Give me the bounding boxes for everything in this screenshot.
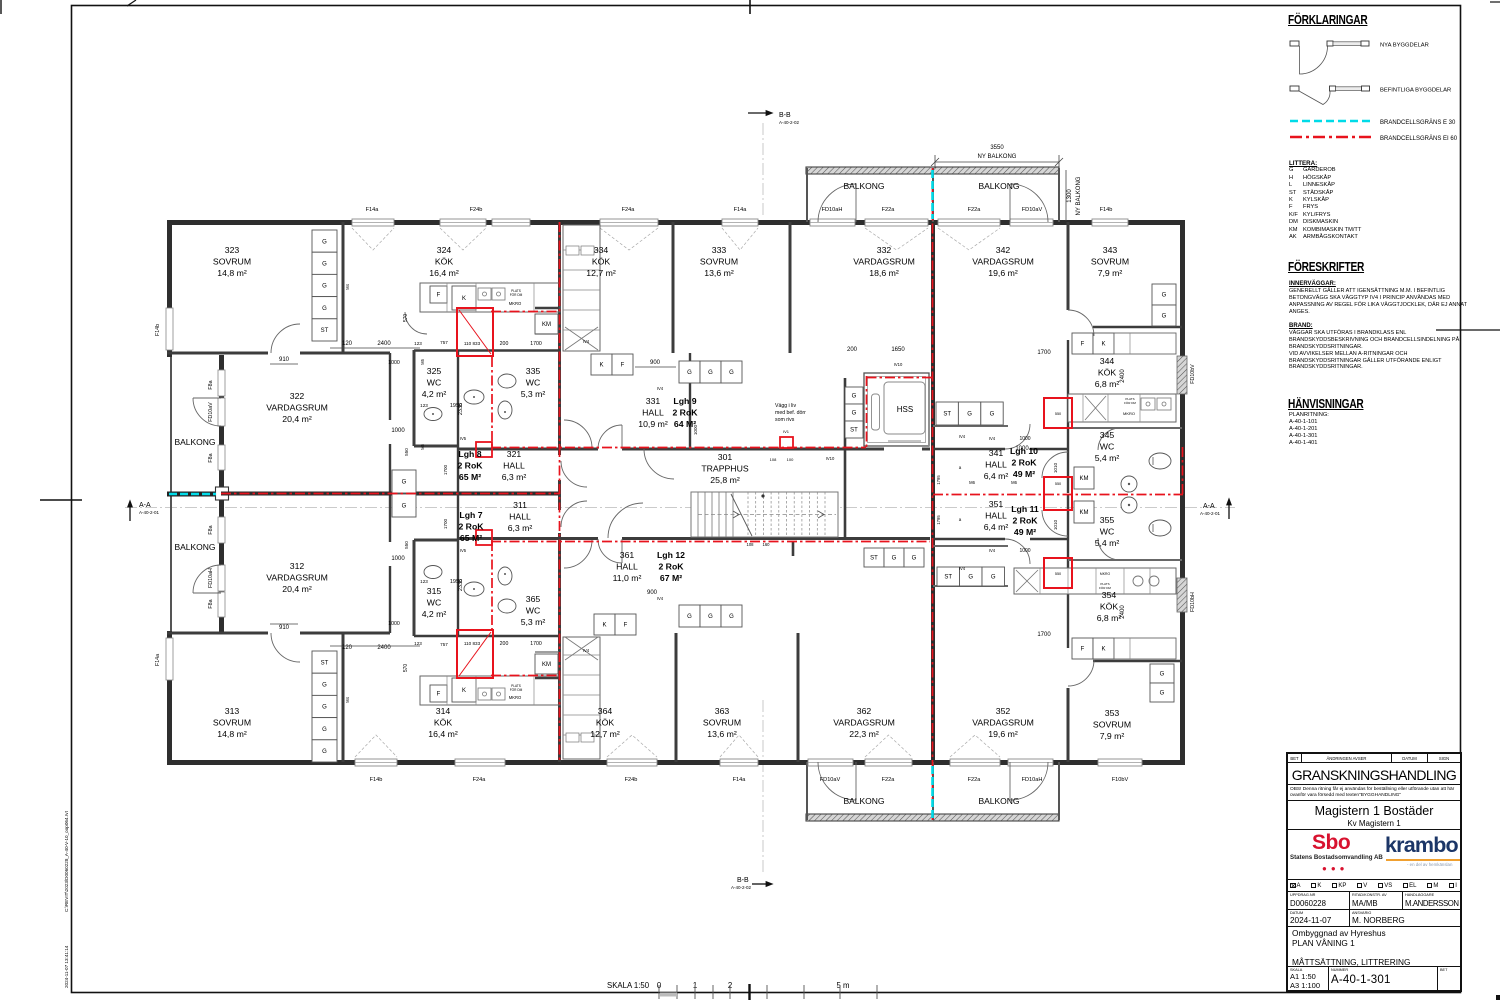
svg-text:G: G [322, 306, 327, 312]
svg-text:Vägg i liv: Vägg i liv [775, 403, 796, 409]
svg-text:VARDAGSRUM: VARDAGSRUM [266, 573, 328, 583]
door 352 side [1042, 510, 1068, 536]
svg-text:2400: 2400 [1120, 369, 1126, 383]
closets 353 [1150, 664, 1174, 683]
window swing dashed [600, 228, 658, 250]
wall 341 hall north [933, 448, 1005, 451]
counter 353 [1114, 638, 1176, 659]
wall 344 area [1067, 340, 1069, 493]
door 343 [1068, 310, 1094, 336]
window top wall [600, 219, 658, 226]
logo row [1288, 830, 1460, 880]
svg-text:354: 354 [1102, 590, 1117, 600]
svg-text:110 833: 110 833 [464, 641, 481, 646]
shaft red small bottom [476, 530, 492, 545]
svg-text:F14a: F14a [734, 207, 748, 213]
svg-text:Lgh 9: Lgh 9 [673, 396, 696, 406]
svg-text:1700: 1700 [1037, 632, 1051, 638]
window swing dashed [720, 735, 758, 757]
svg-text:313: 313 [225, 706, 240, 716]
svg-text:NYA BYGGDELAR: NYA BYGGDELAR [1380, 43, 1429, 49]
wall 345 north [1068, 427, 1182, 429]
door 361 inner [564, 540, 592, 568]
svg-text:G: G [322, 727, 327, 733]
cabinet F K bottom right [1072, 638, 1093, 659]
svg-text:SOVRUM: SOVRUM [1091, 257, 1129, 267]
svg-text:M5: M5 [420, 443, 425, 449]
cabinet K F 334 [591, 354, 612, 375]
svg-text:VARDAGSRUM: VARDAGSRUM [853, 257, 915, 267]
svg-text:200: 200 [847, 347, 858, 353]
svg-text:ST: ST [870, 556, 878, 562]
svg-text:WC: WC [526, 378, 540, 388]
svg-text:BALKONG: BALKONG [843, 796, 884, 806]
svg-text:M5: M5 [420, 358, 425, 364]
window top wall [1010, 219, 1053, 226]
logo krambo [1385, 833, 1458, 858]
svg-text:F: F [437, 692, 441, 698]
svg-text:10,9 m²: 10,9 m² [638, 419, 668, 429]
svg-text:WC: WC [427, 598, 441, 608]
svg-text:1000: 1000 [388, 621, 400, 627]
svg-text:910: 910 [279, 357, 290, 363]
svg-text:6,3 m²: 6,3 m² [508, 523, 533, 533]
svg-text:KM: KM [542, 322, 551, 328]
svg-text:BALKONG: BALKONG [843, 181, 884, 191]
fire line EI60 vertical x559 mid [559, 447, 561, 541]
datum row [1288, 910, 1460, 927]
svg-text:1000: 1000 [391, 428, 405, 434]
svg-text:M6: M6 [969, 480, 975, 485]
svg-text:334: 334 [594, 245, 609, 255]
window top wall [865, 219, 928, 226]
window swing dashed [355, 735, 397, 757]
svg-text:F22a: F22a [968, 207, 982, 213]
window bottom wall [455, 759, 505, 766]
wall 333/332 [789, 222, 792, 353]
svg-text:100: 100 [787, 457, 794, 462]
right wall recess lower [1177, 578, 1187, 612]
svg-text:a: a [959, 465, 962, 470]
svg-text:M4: M4 [345, 283, 350, 289]
svg-text:550: 550 [404, 448, 409, 456]
closets stair side [845, 387, 863, 404]
svg-text:G: G [322, 284, 327, 290]
svg-text:333: 333 [712, 245, 727, 255]
svg-text:345: 345 [1100, 430, 1115, 440]
cabinet F K 314 [430, 685, 447, 702]
fire line EI60 main horizontal right wing [933, 494, 1183, 496]
svg-text:F24b: F24b [470, 207, 483, 213]
svg-text:757: 757 [440, 642, 448, 647]
svg-text:G: G [687, 370, 692, 376]
top balcony slab edge [806, 167, 1059, 174]
svg-text:F14b: F14b [370, 777, 383, 783]
svg-text:123: 123 [420, 579, 428, 584]
closets 333 [679, 361, 700, 383]
svg-text:6,4 m²: 6,4 m² [984, 471, 1009, 481]
wall hall321 left [457, 350, 459, 493]
legend brand text [1289, 323, 1467, 371]
window bottom wall [950, 759, 1000, 766]
section marker B-B top [748, 112, 766, 114]
svg-text:1300: 1300 [1067, 189, 1073, 203]
door 323 wardrobe [405, 312, 427, 334]
svg-text:49 M²: 49 M² [1014, 527, 1036, 537]
closets 313 [312, 651, 337, 673]
door balcony left upper [193, 398, 221, 426]
window bottom wall [355, 759, 397, 766]
svg-text:C:\REVIT\2023\D0060228_A-40-V-: C:\REVIT\2023\D0060228_A-40-V-10_oop064.… [64, 810, 69, 912]
wall kitchens/wc bottom [414, 635, 560, 638]
window swing dashed [440, 228, 486, 250]
door balcony top 1 [818, 184, 856, 222]
svg-text:1010: 1010 [1053, 519, 1058, 530]
left balcony outer wall [170, 357, 172, 631]
svg-text:2 RoK: 2 RoK [457, 461, 483, 471]
svg-text:SOVRUM: SOVRUM [700, 257, 738, 267]
washer KM centre top [535, 314, 558, 334]
svg-text:1000: 1000 [693, 424, 698, 435]
svg-text:ST: ST [321, 660, 329, 666]
svg-text:FÖR DM: FÖR DM [510, 688, 523, 692]
svg-text:F: F [1081, 647, 1085, 653]
svg-text:IV5: IV5 [460, 548, 467, 553]
svg-text:G: G [687, 614, 692, 620]
svg-text:SOVRUM: SOVRUM [213, 718, 251, 728]
svg-text:HALL: HALL [642, 408, 664, 418]
window bottom wall [865, 759, 912, 766]
svg-text:1700: 1700 [530, 641, 542, 647]
stair walk line arrows [733, 511, 739, 518]
svg-text:F22a: F22a [882, 207, 896, 213]
svg-text:Lgh 8: Lgh 8 [458, 449, 481, 459]
svg-text:G: G [852, 411, 857, 417]
svg-text:315: 315 [427, 586, 442, 596]
svg-text:G: G [1160, 691, 1165, 697]
window left facade [218, 517, 225, 543]
fire line EI60 vertical x559 top [559, 222, 561, 447]
wc 365 fixtures [498, 599, 516, 613]
svg-text:FD10bH: FD10bH [1190, 592, 1196, 612]
svg-text:7,9 m²: 7,9 m² [1100, 731, 1125, 741]
wall x390 hall [389, 353, 391, 420]
exterior wall right [1180, 220, 1185, 765]
svg-text:342: 342 [996, 245, 1011, 255]
svg-text:1000: 1000 [1019, 548, 1030, 554]
fire line E30 bottom balcony [931, 766, 934, 818]
shaft red small top [476, 442, 492, 457]
svg-text:BALKONG: BALKONG [174, 437, 215, 447]
svg-text:314: 314 [436, 706, 451, 716]
window swing dashed [938, 228, 1000, 250]
svg-text:HALL: HALL [509, 512, 531, 522]
fire line EI60 right wall [1182, 447, 1184, 494]
legend door symbols [1288, 30, 1468, 120]
svg-text:F24a: F24a [622, 207, 636, 213]
window left facade [218, 592, 225, 617]
svg-text:IV1: IV1 [783, 429, 790, 434]
cabinet F K 324 [430, 286, 447, 303]
wall 313/314 [342, 633, 345, 762]
bottom balcony left wall [806, 762, 808, 820]
svg-text:a: a [959, 517, 962, 522]
wc 345 fixtures [1149, 453, 1171, 469]
svg-text:1795: 1795 [936, 515, 941, 525]
svg-text:18,6 m²: 18,6 m² [869, 268, 899, 278]
svg-text:FD10aV: FD10aV [1022, 207, 1043, 213]
door 353 [1068, 660, 1094, 686]
svg-text:123: 123 [414, 641, 422, 646]
title block [1286, 752, 1462, 992]
stair flight [691, 492, 838, 537]
window swing dashed [607, 735, 657, 757]
svg-text:VARDAGSRUM: VARDAGSRUM [972, 257, 1034, 267]
left centre tick [40, 499, 82, 501]
legend fire lines [1288, 114, 1478, 148]
fire line E30 top balcony [931, 170, 934, 219]
svg-text:ST: ST [850, 428, 858, 434]
svg-text:KÖK: KÖK [592, 257, 611, 267]
svg-text:G: G [967, 412, 972, 418]
svg-text:A-40-2-02: A-40-2-02 [731, 885, 752, 890]
stair treads dashed upper [747, 492, 749, 537]
svg-text:325: 325 [427, 366, 442, 376]
svg-text:757: 757 [440, 340, 448, 345]
svg-text:361: 361 [620, 550, 635, 560]
svg-text:F14a: F14a [366, 207, 380, 213]
svg-text:108: 108 [747, 542, 755, 547]
legend littera list [1289, 160, 1469, 241]
svg-text:570: 570 [403, 314, 409, 323]
wc 315 fixtures [464, 582, 484, 596]
svg-text:323: 323 [225, 245, 240, 255]
svg-text:IV4: IV4 [657, 596, 664, 601]
svg-text:5 m: 5 m [837, 981, 850, 990]
svg-text:som rivs: som rivs [775, 417, 795, 423]
shaft HSS [864, 373, 929, 446]
svg-text:G: G [322, 749, 327, 755]
svg-text:F: F [621, 363, 625, 369]
svg-text:FD10aH: FD10aH [1022, 777, 1043, 783]
svg-text:1700: 1700 [443, 464, 448, 475]
door balcony bottom 1 [818, 762, 856, 800]
kitchen counter 314 [420, 676, 560, 705]
svg-text:351: 351 [989, 499, 1004, 509]
granskningshandling row [1288, 763, 1460, 785]
svg-text:67 M²: 67 M² [660, 573, 682, 583]
revision row [1288, 754, 1460, 763]
svg-text:110 833: 110 833 [464, 341, 481, 346]
svg-text:200: 200 [500, 341, 509, 347]
door balcony top 2 [1010, 184, 1048, 222]
door hall 341 [1005, 424, 1030, 449]
stairwell wall east [844, 378, 847, 538]
svg-text:G: G [729, 370, 734, 376]
svg-text:KÖK: KÖK [1100, 602, 1119, 612]
fire line EI60 corridor south [491, 541, 930, 543]
svg-text:1010: 1010 [1053, 462, 1058, 473]
wall 334/333 [672, 222, 675, 353]
svg-text:4,2 m²: 4,2 m² [422, 609, 447, 619]
wall 354 area [1067, 494, 1069, 648]
svg-text:BALKONG: BALKONG [978, 181, 1019, 191]
svg-text:341: 341 [989, 448, 1004, 458]
fire line EI60 vertical centre [932, 168, 934, 820]
svg-text:6,4 m²: 6,4 m² [984, 522, 1009, 532]
svg-text:364: 364 [598, 706, 613, 716]
svg-text:355: 355 [1100, 515, 1115, 525]
svg-text:900: 900 [650, 360, 661, 366]
svg-text:200: 200 [500, 641, 509, 647]
svg-text:25,8 m²: 25,8 m² [710, 475, 740, 485]
svg-text:G: G [991, 575, 996, 581]
svg-text:1000: 1000 [391, 556, 405, 562]
svg-text:2 RoK: 2 RoK [1011, 458, 1037, 468]
svg-text:12,7 m²: 12,7 m² [590, 729, 620, 739]
svg-text:A-40-2-01: A-40-2-01 [139, 510, 160, 515]
svg-text:343: 343 [1103, 245, 1118, 255]
svg-text:16,4 m²: 16,4 m² [429, 268, 459, 278]
svg-text:7,9 m²: 7,9 m² [1098, 268, 1123, 278]
closets 352 row2 [937, 567, 960, 586]
svg-text:K: K [1101, 647, 1105, 653]
svg-text:4,2 m²: 4,2 m² [422, 389, 447, 399]
window top wall [492, 219, 530, 226]
svg-text:2 RoK: 2 RoK [1012, 516, 1038, 526]
window top wall [722, 219, 758, 226]
svg-text:321: 321 [507, 449, 522, 459]
door 342 side [1042, 452, 1068, 478]
closets 342 [936, 402, 958, 425]
svg-text:1700: 1700 [1037, 350, 1051, 356]
svg-text:G: G [322, 683, 327, 689]
window bottom wall [1008, 759, 1053, 766]
closets 363 [679, 605, 700, 627]
svg-text:65 M²: 65 M² [459, 472, 481, 482]
fire line EI60 shaft link top [491, 311, 558, 313]
svg-text:BRANDCELLSGRÄNS EI 60: BRANDCELLSGRÄNS EI 60 [1380, 135, 1458, 142]
svg-text:331: 331 [646, 396, 661, 406]
svg-text:22,3 m²: 22,3 m² [849, 729, 879, 739]
svg-text:49 M²: 49 M² [1013, 469, 1035, 479]
svg-text:363: 363 [715, 706, 730, 716]
closet wall 352 [933, 545, 1008, 547]
wc 325 fixtures [464, 390, 484, 404]
window top wall [810, 219, 855, 226]
window left facade [218, 445, 225, 470]
svg-text:1700: 1700 [530, 341, 542, 347]
fire line EI60 shaft link bottom [491, 675, 558, 677]
svg-text:FÖR DM: FÖR DM [1124, 401, 1136, 405]
svg-text:A-A: A-A [1203, 503, 1215, 510]
left balcony divider wall [167, 492, 228, 497]
wc 335 fixtures [498, 374, 516, 388]
bottom balcony divider [932, 762, 934, 820]
svg-text:6,3 m²: 6,3 m² [502, 472, 527, 482]
legend planritning list [1289, 412, 1467, 447]
svg-text:IV4: IV4 [989, 548, 996, 553]
wall 355 south [1068, 559, 1182, 561]
closet wall 342 [933, 425, 1008, 427]
svg-text:K: K [599, 363, 603, 369]
left balcony main facade wall [219, 355, 224, 633]
svg-text:2 RoK: 2 RoK [458, 522, 484, 532]
svg-text:5,3 m²: 5,3 m² [521, 389, 546, 399]
closets 352 row1 [864, 548, 884, 567]
uppdrag row [1288, 892, 1460, 910]
svg-text:344: 344 [1100, 356, 1115, 366]
svg-text:FÖR DM: FÖR DM [510, 293, 523, 297]
svg-text:IV4: IV4 [583, 339, 590, 344]
svg-text:5,3 m²: 5,3 m² [521, 617, 546, 627]
window bottom wall [607, 759, 657, 766]
svg-text:K: K [462, 688, 466, 694]
svg-text:K: K [1101, 342, 1105, 348]
svg-text:353: 353 [1105, 708, 1120, 718]
bottom balcony right wall [1058, 762, 1060, 820]
svg-text:NY BALKONG: NY BALKONG [1076, 176, 1082, 215]
fire line EI60 vertical x559 bottom [559, 541, 561, 762]
svg-text:VARDAGSRUM: VARDAGSRUM [266, 403, 328, 413]
wall stub below stair [792, 541, 795, 556]
svg-text:F10bV: F10bV [1112, 777, 1129, 783]
exterior wall left upper [167, 220, 172, 357]
svg-text:352: 352 [996, 706, 1011, 716]
bottom centre tick [748, 984, 750, 1000]
section line B-B vertical top [762, 123, 764, 218]
svg-text:1000: 1000 [1019, 436, 1030, 442]
svg-text:MKRO: MKRO [509, 695, 522, 700]
cabinet K F 364 [594, 614, 615, 635]
door hall 361 [598, 539, 622, 563]
svg-text:301: 301 [718, 452, 733, 462]
description row [1288, 927, 1460, 967]
svg-text:SOVRUM: SOVRUM [1093, 720, 1131, 730]
svg-text:HSS: HSS [897, 405, 913, 414]
wall 323/324 [342, 222, 345, 353]
legend symbol existing parts [1290, 86, 1299, 91]
svg-text:G: G [402, 480, 407, 486]
corner mark bottom-right [1496, 995, 1500, 1000]
wall 313/312 [167, 632, 268, 635]
svg-text:F14a: F14a [733, 777, 747, 783]
party wall 322/312 [221, 492, 560, 496]
door 355 [1098, 538, 1120, 560]
svg-text:6,8 m²: 6,8 m² [1095, 379, 1120, 389]
svg-text:16,4 m²: 16,4 m² [428, 729, 458, 739]
svg-text:F: F [437, 293, 441, 299]
exterior wall left lower [167, 631, 172, 765]
svg-text:1795: 1795 [936, 475, 941, 485]
shaft red box bottom wing [457, 630, 493, 678]
svg-text:IV4: IV4 [989, 436, 996, 441]
svg-text:FD10aH: FD10aH [822, 207, 843, 213]
window swing dashed [722, 228, 758, 250]
window top wall [938, 219, 1000, 226]
svg-text:Lgh 12: Lgh 12 [657, 550, 685, 560]
svg-text:BALKONG: BALKONG [174, 542, 215, 552]
svg-text:MKRO: MKRO [1100, 572, 1111, 576]
svg-text:MKRO: MKRO [1123, 411, 1135, 416]
svg-text:F22a: F22a [882, 777, 896, 783]
corridor wall south [458, 537, 598, 540]
shaft red right wing 3 [1044, 558, 1072, 588]
bottom balcony slab edge [806, 814, 1059, 821]
wc walls bottom [413, 540, 416, 636]
window bottom wall [720, 759, 758, 766]
counter 343 [1114, 333, 1176, 354]
